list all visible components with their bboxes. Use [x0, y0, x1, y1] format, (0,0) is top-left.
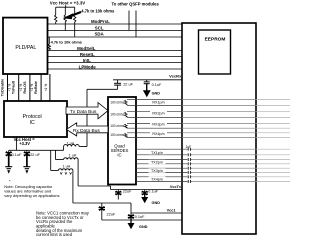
svg-text:22 uF: 22 uF — [123, 83, 133, 87]
svg-text:0.1uF: 0.1uF — [12, 153, 22, 157]
svg-text:0.1uF: 0.1uF — [148, 190, 158, 194]
svg-text:100 ohms: 100 ohms — [110, 133, 124, 137]
svg-text:LPMode: LPMode — [79, 64, 97, 69]
svg-text:0.1uF: 0.1uF — [152, 83, 162, 87]
svg-text:TX3p/n: TX3p/n — [151, 169, 163, 173]
svg-text:100 ohms: 100 ohms — [110, 101, 124, 105]
svg-text:To other QSFP modules: To other QSFP modules — [112, 2, 160, 7]
svg-text:RxLOS: RxLOS — [23, 81, 27, 94]
svg-text:vary depending on applications: vary depending on applications — [4, 193, 59, 198]
svg-text:PLD/PAL: PLD/PAL — [15, 45, 36, 51]
svg-text:IntL: IntL — [83, 58, 91, 63]
svg-text:1 uH: 1 uH — [69, 154, 77, 158]
svg-text:1uF: 1uF — [186, 145, 193, 149]
svg-text:22 uF: 22 uF — [30, 153, 40, 157]
svg-text:SCL: SCL — [95, 26, 104, 31]
svg-text:RX4p/n: RX4p/n — [152, 132, 164, 136]
svg-text:SDA: SDA — [94, 32, 104, 37]
svg-text:RxRate: RxRate — [34, 81, 38, 94]
svg-text:*: * — [9, 179, 11, 184]
svg-text:TxFault: TxFault — [12, 80, 16, 94]
svg-text:4.7k to 10k ohms: 4.7k to 10k ohms — [51, 40, 82, 45]
svg-text:TX4p/n: TX4p/n — [151, 177, 163, 181]
svg-text:current limit is used: current limit is used — [36, 232, 73, 237]
svg-text:VccTx: VccTx — [170, 185, 182, 189]
svg-text:RX1p/n: RX1p/n — [152, 101, 164, 105]
svg-text:0.1uF: 0.1uF — [135, 215, 145, 219]
svg-text:4.7k to 10k ohms: 4.7k to 10k ohms — [81, 9, 115, 14]
svg-text:GND: GND — [152, 201, 161, 205]
svg-text:VccRx: VccRx — [169, 74, 182, 79]
svg-text:100 ohms: 100 ohms — [110, 124, 124, 128]
svg-text:<1 %: <1 % — [44, 84, 48, 92]
svg-text:22uF: 22uF — [107, 212, 116, 216]
svg-text:EEPROM: EEPROM — [205, 37, 226, 43]
svg-text:TX1p/n: TX1p/n — [151, 151, 163, 155]
svg-text:ModSelL: ModSelL — [77, 46, 96, 51]
svg-text:Vcc Host = +3.3V: Vcc Host = +3.3V — [50, 1, 85, 6]
svg-text:1 uH: 1 uH — [63, 165, 71, 169]
svg-text:22uF: 22uF — [123, 190, 132, 194]
svg-text:RX3p/n: RX3p/n — [152, 122, 164, 126]
svg-text:GND: GND — [152, 92, 161, 96]
svg-text:ResetL: ResetL — [80, 52, 95, 57]
svg-text:Tx Data Bus: Tx Data Bus — [70, 109, 97, 115]
svg-text:Vcc1: Vcc1 — [167, 208, 176, 212]
svg-text:TxDisable: TxDisable — [0, 79, 4, 96]
svg-text:1 uH: 1 uH — [67, 141, 75, 145]
svg-text:Rx Data Bus: Rx Data Bus — [73, 128, 101, 134]
svg-text:IC: IC — [117, 152, 121, 157]
svg-text:TX2p/n: TX2p/n — [151, 161, 163, 165]
svg-text:RX2p/n: RX2p/n — [152, 112, 164, 116]
svg-text:IC: IC — [30, 120, 35, 126]
svg-text:Protocol: Protocol — [23, 114, 42, 120]
svg-text:ModPrsL: ModPrsL — [91, 19, 110, 24]
svg-text:GND: GND — [139, 225, 148, 229]
svg-text:+3.3V: +3.3V — [19, 141, 30, 146]
svg-text:100 ohms: 100 ohms — [110, 113, 124, 117]
